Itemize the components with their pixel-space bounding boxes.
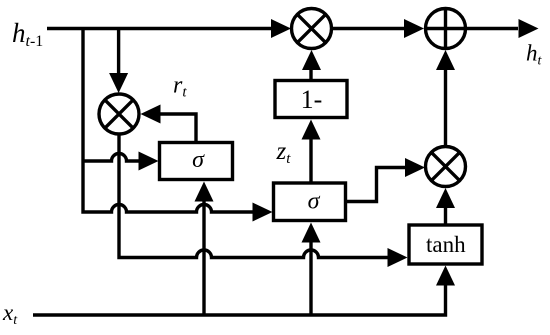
wire: x_t main bottom line turning up into tanh [33,284,446,315]
arrowhead into 1- box bottom [302,120,321,140]
left multiplier circle with X [99,94,139,134]
arrowhead into adder bottom [436,50,455,70]
wire: drop at x=119 into left multiplier [117,29,120,75]
arrowhead into right multiplier left [405,158,425,177]
wire: r_t feedback from sigma1 top to left multiplier [160,114,196,141]
arrowhead into sigma1 left [139,152,159,171]
wire: z_t line sigma2 top to 1- box [309,138,312,182]
arrowhead into left multiplier right (r_t) [141,105,161,124]
svg-text:σ: σ [308,189,321,215]
box: 1- [275,81,347,118]
wire: drop at x=83 to z-gate row, with hops over x=119 and x=204 [83,27,254,212]
wire: x_t riser into sigma2 bottom [309,241,312,315]
wire: top multiplier output to adder [333,27,405,30]
wire: x_t riser into sigma1 bottom [202,200,205,315]
arrowhead into sigma2 left [253,203,273,222]
wire: branch to sigma r-gate at y=161, hop over x=119 [83,154,140,161]
box: tanh [409,225,482,264]
wire: adder output to h_t [467,27,518,30]
svg-text:xt: xt [2,300,18,328]
arrowhead into adder left [404,19,424,38]
arrowhead into tanh left [388,248,408,267]
right multiplier circle with X [426,147,466,187]
wire: left multiplier output down and right to tanh, hops over x=204 and x=311 [119,134,389,258]
wire: tanh output up to right multiplier [444,207,447,224]
svg-text:1-: 1- [301,85,323,114]
arrowhead into sigma1 bottom [195,182,214,202]
svg-text:σ: σ [192,147,205,173]
arrowhead into sigma2 bottom [302,223,321,243]
wire: h(t-1) main top line [47,27,272,30]
arrowhead into right multiplier bottom [436,188,455,208]
svg-text:rt: rt [173,73,187,101]
arrowhead at h_t output [519,19,539,38]
wire: right multiplier output up to adder [444,69,447,145]
svg-text:ht: ht [526,41,543,69]
top multiplier circle with X [292,9,332,49]
arrowhead into tanh bottom [436,266,455,286]
arrowhead into top multiplier bottom [302,50,321,70]
arrowhead into left multiplier top [109,73,128,93]
wire: sigma2 output right and up to right multiplier [347,168,406,202]
adder circle with plus [426,9,466,49]
svg-text:tanh: tanh [426,232,466,257]
svg-text:ht-1: ht-1 [12,18,43,50]
svg-text:zt: zt [276,138,292,167]
wire: 1- box top to top multiplier [309,69,312,79]
box: sigma 1 (reset gate) [160,143,233,180]
box: sigma 2 (update gate) [274,183,346,221]
arrowhead into top multiplier left [271,19,291,38]
